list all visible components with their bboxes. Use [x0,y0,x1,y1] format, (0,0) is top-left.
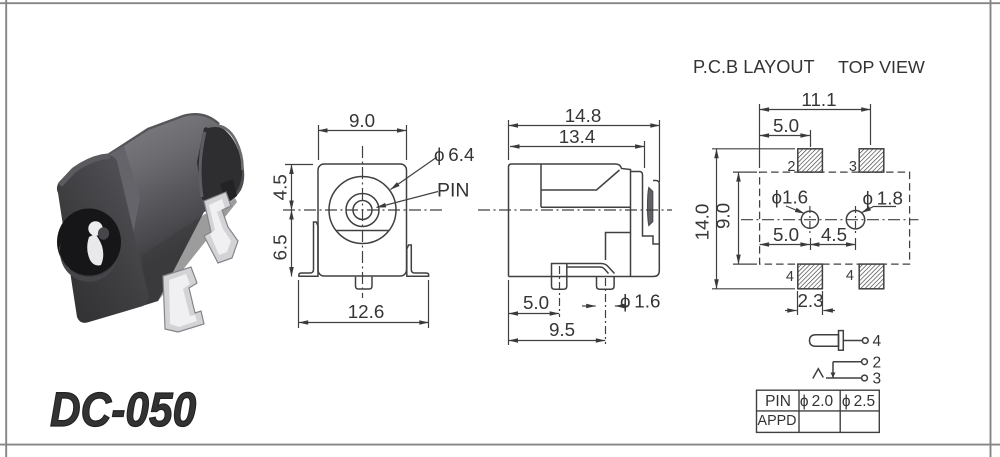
front vertical centerline [362,146,364,298]
photo bottom metal lug [163,267,204,332]
hole1 vertical centerline [809,206,811,233]
schematic switch vertical [832,362,834,378]
schematic mounting plate [839,331,844,351]
photo hole inner reflection [59,243,117,282]
svg-text:5.0: 5.0 [523,292,549,313]
front right leg [407,245,429,276]
front chord line [337,230,389,232]
dimension 9.0 line [318,130,407,132]
svg-text:ϕ 6.4: ϕ 6.4 [434,144,474,165]
photo right lug highlight [209,199,231,255]
side body left extension down [508,280,510,345]
dimension 14.0 extension lines [712,148,795,150]
schematic terminal 4 line [843,340,862,342]
dimension 11.1 line [760,109,871,111]
front middle circle [346,194,379,227]
photo cap top rim highlight [207,126,243,170]
photo plate top bevel [60,156,110,185]
schematic terminal 2 circle [862,359,868,365]
front body outline [318,164,407,276]
svg-text:4: 4 [786,269,794,285]
photo pin reflection streak [87,234,103,265]
photo pin ball [88,221,102,235]
photo barrel top rim [100,114,219,160]
svg-text:ϕ 2.5: ϕ 2.5 [842,393,875,410]
label phi1.8 leader [862,207,897,213]
svg-text:PIN: PIN [437,180,470,202]
svg-text:5.0: 5.0 [773,224,799,245]
dimension 11.1 extension lines [759,104,761,168]
schematic terminal 2 line [833,361,861,363]
svg-text:14.8: 14.8 [565,105,602,126]
frame border right [990,0,992,457]
svg-text:12.6: 12.6 [348,301,385,322]
svg-text:6.5: 6.5 [270,234,291,260]
dimension 5.0/4.5 lower line [760,244,810,246]
dimension 13.4 line [510,146,645,148]
hole2 vertical centerline [855,206,857,233]
photo barrel end cap rim [200,132,205,197]
photo hole [57,209,121,276]
photo barrel body [100,114,244,306]
photo front plate [57,155,149,323]
lower dim ticks [810,238,812,250]
dimension 12.6 line [299,322,429,324]
svg-text:14.0: 14.0 [692,204,713,241]
svg-text:ϕ 2.0: ϕ 2.0 [800,393,834,410]
schematic spring lever [813,369,824,379]
dimension 9.0 line [738,172,740,264]
side inner slot vertical [540,164,542,207]
schematic switch contact dot [831,373,836,378]
side back plate B [631,181,660,277]
svg-text:3: 3 [873,371,882,388]
dimension 2.3 extension lines [797,291,799,315]
dimension 14.8 line [509,125,660,127]
photo barrel lower shadow [142,198,237,306]
side left pin [552,264,567,290]
svg-text:P.C.B LAYOUT: P.C.B LAYOUT [693,57,815,77]
frame border top [0,2,1000,4]
photo barrel light wedge near plate [105,146,140,250]
svg-text:TOP VIEW: TOP VIEW [838,57,925,77]
frame border left [5,0,7,457]
pad 4 right [859,264,884,289]
spec table row divider [757,410,880,412]
svg-text:4.5: 4.5 [821,224,847,245]
svg-text:4.5: 4.5 [270,174,291,200]
svg-text:PIN: PIN [765,393,791,410]
svg-text:9.5: 9.5 [549,319,575,340]
svg-text:3: 3 [849,159,857,175]
pcb horizontal centerline [741,219,919,221]
schematic terminal 3 line [826,377,861,379]
front left leg [299,222,318,276]
photo pin dark cap [98,227,109,239]
front inner circle [353,201,372,220]
side inner slot bottom line [541,206,631,208]
schematic barrel pin symbol [810,335,839,347]
schematic terminal 4 circle [862,338,868,344]
svg-text:APPD: APPD [758,413,797,429]
label phi 6.4 leader [391,157,438,190]
dimension 12.6 extension lines [298,280,300,328]
dimension 5.0 line [509,313,560,315]
photo right metal lug [204,192,238,263]
svg-text:ϕ1.6: ϕ1.6 [772,187,809,208]
pcb outline dashed rect [760,172,910,264]
pad 3 [859,149,884,172]
svg-text:13.4: 13.4 [559,126,596,147]
dimension 6.5 line [291,210,293,277]
dimension 9.5 line [509,340,606,342]
svg-text:ϕ 1.6: ϕ 1.6 [620,291,660,312]
label phi1.6 leader [786,206,805,214]
side pin contact bump [648,188,653,226]
dimension phi1.6 arrows [582,305,596,307]
dimension 2.3 arrows [785,310,797,312]
svg-text:2: 2 [873,355,882,372]
side back bracket steps [631,172,660,245]
spec table column divider 1 [798,390,800,432]
hole 1.6 [801,211,818,228]
photo bottom lug highlight [169,274,197,327]
front horizontal centerline [283,209,444,211]
schematic terminal 3 circle [862,375,868,381]
svg-text:5.0: 5.0 [773,115,799,136]
svg-text:2: 2 [787,159,795,175]
hole 1.8 [846,211,864,229]
svg-text:9.0: 9.0 [713,203,734,229]
dimension 14.0 line [716,149,718,289]
side horizontal centerline [478,209,672,211]
svg-text:DC-050: DC-050 [50,382,196,436]
photo barrel end cap [197,126,242,204]
dimension 13.4 extension line [644,141,646,168]
svg-text:9.0: 9.0 [349,110,375,131]
side main body outline [509,164,631,277]
dimension 5.0 top tick [810,130,812,147]
pad 4 left [798,264,823,289]
side bottom notch [606,233,631,261]
dimension 4.5 line [291,165,293,211]
side inner slot top line [541,170,620,190]
svg-text:4: 4 [873,333,882,350]
spec table column divider 2 [839,390,841,432]
spec table outline [757,390,880,432]
dimension 5.0 top line [760,135,810,137]
side right pin [597,277,615,290]
dimension 4.5/6.5 extension top [285,164,313,166]
front bottom tab [356,277,373,289]
side bracket strip [567,264,615,274]
side left pin centerline [559,266,561,317]
svg-text:ϕ 1.8: ϕ 1.8 [863,188,903,209]
side bottom edge [509,276,631,278]
label PIN leader [377,192,439,208]
svg-text:11.1: 11.1 [801,89,836,110]
dimension 9.0 extension ticks [733,171,757,173]
front outer circle [329,177,396,244]
svg-text:2.3: 2.3 [797,290,823,311]
svg-text:4: 4 [846,268,854,284]
side right pin centerline [605,278,607,344]
dimension 9.0 extension lines [318,125,320,160]
frame border bottom [0,444,1000,446]
pad 2 [798,149,823,172]
photo dark contact tab top right [220,179,237,203]
dimension 14.8 extension lines [508,120,510,160]
